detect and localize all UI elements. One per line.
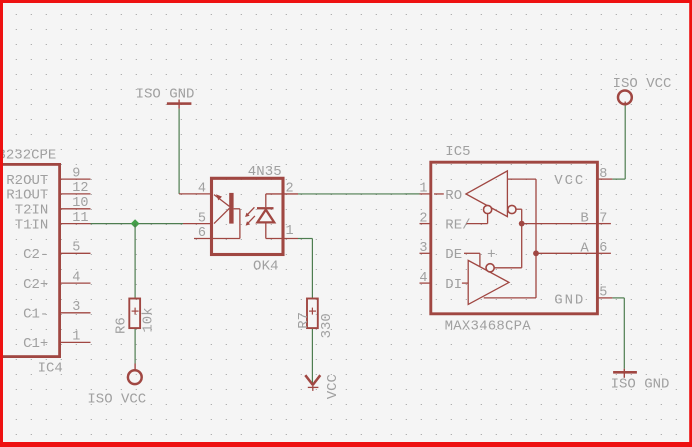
svg-text:DE: DE — [445, 247, 462, 263]
svg-text:11: 11 — [72, 211, 88, 226]
svg-text:4N35: 4N35 — [248, 164, 282, 180]
svg-text:VCC: VCC — [325, 374, 341, 399]
svg-text:T2IN: T2IN — [15, 203, 49, 219]
svg-text:3: 3 — [72, 300, 80, 315]
svg-text:ISO VCC: ISO VCC — [87, 392, 146, 408]
svg-text:ISO GND: ISO GND — [611, 377, 670, 393]
svg-text:C1+: C1+ — [23, 336, 48, 352]
svg-text:8: 8 — [599, 167, 607, 182]
svg-text:IC4: IC4 — [38, 361, 63, 377]
svg-text:6: 6 — [599, 241, 607, 256]
svg-text:C2+: C2+ — [23, 277, 48, 293]
svg-text:T1IN: T1IN — [15, 217, 49, 233]
svg-text:3232CPE: 3232CPE — [0, 148, 56, 164]
svg-text:12: 12 — [72, 181, 88, 196]
svg-text:10k: 10k — [140, 307, 156, 332]
svg-text:10: 10 — [72, 196, 88, 211]
svg-text:+: + — [487, 247, 496, 263]
svg-text:2: 2 — [419, 211, 427, 226]
svg-text:C1-: C1- — [23, 307, 48, 323]
svg-text:R6: R6 — [113, 317, 129, 334]
svg-text:9: 9 — [72, 166, 80, 181]
svg-text:ISO VCC: ISO VCC — [613, 76, 672, 92]
svg-text:5: 5 — [599, 286, 607, 301]
svg-text:OK4: OK4 — [253, 258, 279, 274]
svg-text:5: 5 — [198, 211, 206, 226]
svg-text:3: 3 — [419, 241, 427, 256]
svg-text:7: 7 — [599, 211, 607, 226]
svg-text:5: 5 — [72, 241, 80, 256]
svg-text:DI: DI — [445, 277, 462, 293]
svg-text:R2OUT: R2OUT — [6, 173, 48, 189]
svg-text:4: 4 — [419, 271, 427, 286]
svg-text:VCC: VCC — [554, 173, 583, 189]
svg-text:1: 1 — [286, 224, 294, 239]
svg-text:IC5: IC5 — [445, 144, 470, 160]
svg-text:4: 4 — [198, 182, 206, 197]
svg-text:MAX3468CPA: MAX3468CPA — [445, 319, 532, 335]
svg-text:C2-: C2- — [23, 247, 48, 263]
svg-text:GND: GND — [554, 292, 583, 308]
svg-text:R1OUT: R1OUT — [6, 188, 48, 204]
svg-text:1: 1 — [72, 330, 80, 345]
svg-text:RE/: RE/ — [445, 218, 470, 234]
svg-text:ISO GND: ISO GND — [136, 87, 195, 103]
svg-text:330: 330 — [319, 313, 335, 338]
svg-text:A: A — [580, 241, 589, 257]
svg-text:R7: R7 — [296, 312, 312, 329]
svg-text:RO: RO — [445, 188, 462, 204]
svg-text:1: 1 — [419, 182, 427, 197]
svg-text:4: 4 — [72, 270, 80, 285]
